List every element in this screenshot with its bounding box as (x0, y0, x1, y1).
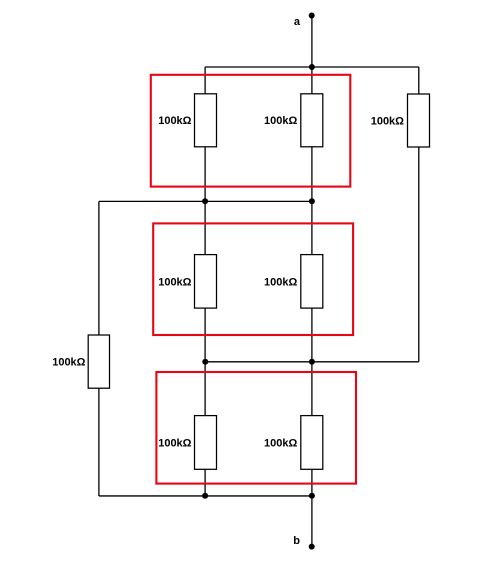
svg-text:b: b (293, 535, 300, 547)
svg-text:100kΩ: 100kΩ (52, 357, 85, 369)
svg-text:100kΩ: 100kΩ (264, 276, 297, 288)
svg-text:a: a (294, 16, 301, 28)
svg-text:100kΩ: 100kΩ (158, 115, 191, 127)
svg-text:100kΩ: 100kΩ (264, 115, 297, 127)
svg-text:100kΩ: 100kΩ (264, 437, 297, 449)
svg-text:100kΩ: 100kΩ (371, 115, 404, 127)
svg-text:100kΩ: 100kΩ (158, 437, 191, 449)
svg-text:100kΩ: 100kΩ (158, 276, 191, 288)
